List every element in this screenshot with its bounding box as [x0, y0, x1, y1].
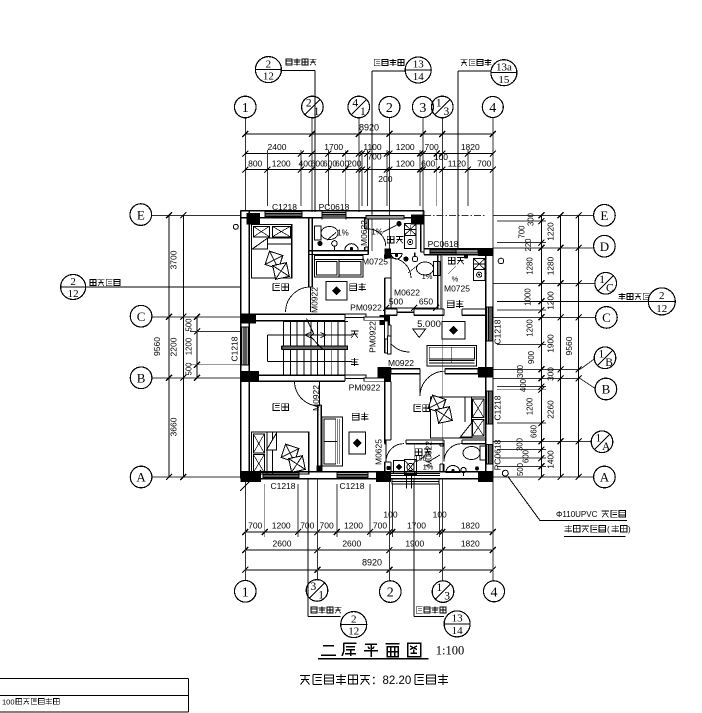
note box text	[2, 698, 59, 707]
svg-text:3700: 3700	[169, 250, 179, 269]
wall bath3 north	[462, 440, 486, 444]
bed bedroom2	[251, 432, 308, 474]
axis bubble 1 top	[235, 96, 257, 118]
svg-text:C1218: C1218	[270, 481, 295, 491]
svg-text:1700: 1700	[407, 520, 426, 530]
slope balcony1	[371, 225, 396, 236]
label bedroom1	[273, 283, 288, 291]
table living1 top	[326, 282, 347, 301]
svg-text:2: 2	[386, 101, 393, 116]
svg-text:12: 12	[68, 288, 79, 300]
bottom dimension lines	[242, 484, 495, 575]
svg-text:300: 300	[527, 212, 536, 226]
detail leader 2/12 top-left	[255, 57, 316, 212]
small circle pipe unit2	[498, 258, 504, 264]
toilet bath1	[315, 226, 339, 240]
axis bubble 3 top	[412, 97, 433, 118]
svg-text:1200: 1200	[272, 158, 291, 168]
svg-text:2: 2	[659, 290, 665, 302]
svg-text:4: 4	[491, 585, 498, 600]
svg-text:13: 13	[413, 59, 425, 71]
dot balcony3	[386, 466, 390, 470]
axis bubble 4/1 top	[348, 96, 370, 118]
svg-text:Φ110UPVC: Φ110UPVC	[556, 510, 598, 519]
bed bedroom1	[251, 225, 291, 280]
floor drain bath1	[317, 241, 322, 246]
svg-text:1200: 1200	[344, 520, 363, 530]
svg-text:1: 1	[242, 101, 249, 116]
axis bubble 3/1 bottom	[306, 580, 328, 602]
svg-text:2: 2	[351, 613, 357, 625]
wall hall north at C	[241, 314, 345, 320]
svg-text:14: 14	[413, 71, 425, 83]
window PC0618 top	[322, 211, 346, 220]
svg-text:1200: 1200	[546, 291, 556, 310]
svg-text:600: 600	[522, 449, 531, 463]
bed bedroom3	[428, 395, 486, 438]
svg-text:9560: 9560	[152, 337, 162, 356]
slope balcony2	[448, 266, 459, 284]
column center at C	[380, 315, 390, 325]
svg-text:1: 1	[599, 348, 605, 360]
slope bath2	[408, 265, 433, 281]
wall party middle	[385, 325, 391, 353]
svg-text:9560: 9560	[564, 336, 574, 355]
title underline	[318, 658, 429, 660]
svg-text:B: B	[137, 371, 146, 386]
door M0725 bath2	[391, 258, 411, 278]
axis bubble C left	[130, 305, 152, 327]
svg-text:500: 500	[389, 297, 403, 307]
top dimension lines	[242, 128, 495, 206]
column center at B	[378, 367, 392, 382]
axis bubble B left	[130, 367, 152, 389]
floor drain bath3	[475, 466, 479, 470]
stair arrowhead right	[321, 332, 327, 337]
svg-text:C: C	[137, 309, 146, 324]
slope bath1	[327, 229, 349, 241]
small circle pipe top-left	[233, 224, 238, 229]
svg-text:PM0922: PM0922	[349, 382, 381, 392]
table living1 bottom	[349, 432, 366, 454]
svg-text:PC0618: PC0618	[319, 202, 350, 212]
detail leader 2/12 right	[497, 288, 675, 315]
svg-text:1:100: 1:100	[436, 644, 464, 658]
svg-text:300: 300	[516, 437, 525, 451]
axis bubble C right	[596, 307, 618, 329]
svg-text:8920: 8920	[362, 558, 382, 568]
svg-text:300: 300	[546, 367, 556, 381]
basin bath1	[345, 244, 359, 251]
label dim 500 650	[383, 297, 439, 311]
svg-text:1120: 1120	[448, 158, 467, 168]
svg-text:1820: 1820	[461, 142, 480, 152]
svg-text:1: 1	[436, 98, 442, 110]
wall exterior bottom	[241, 472, 493, 479]
grid vertical axis lines bottom	[245, 479, 492, 581]
door M0922 unit2 entry	[385, 327, 410, 352]
dot balcony2	[464, 254, 468, 258]
door M0922 bedroom2	[295, 381, 320, 406]
svg-text:1000: 1000	[524, 288, 533, 306]
svg-text:1: 1	[242, 585, 249, 600]
balcony1 top rail	[366, 216, 404, 219]
title text (second floor plan)	[321, 643, 421, 657]
rain pipe label line1	[556, 510, 625, 519]
svg-text:M0622: M0622	[423, 441, 433, 467]
axis bubble E left	[130, 204, 152, 226]
svg-text:4: 4	[489, 101, 496, 116]
window PC0618 unit2 top	[430, 248, 456, 255]
svg-text:): )	[628, 525, 631, 534]
interior axis reference lines	[372, 214, 486, 479]
svg-text:1220: 1220	[546, 222, 556, 241]
detail leader 13/14 bottom	[414, 479, 470, 637]
door PM0922 sliding vertical	[385, 321, 391, 354]
svg-text:1280: 1280	[526, 257, 535, 275]
door M0622 unit2 hall	[397, 311, 414, 313]
column top-left corner	[247, 213, 261, 225]
left dimension lines	[166, 212, 241, 480]
level marker 5.000	[413, 319, 441, 337]
rain pipe label line2	[564, 525, 631, 537]
rain pipe leader line	[508, 476, 540, 520]
svg-text:1: 1	[437, 582, 443, 594]
svg-text:E: E	[600, 208, 608, 223]
svg-text:14: 14	[452, 625, 464, 637]
detail leader 13a/15 top	[458, 59, 517, 249]
axis bubble A left	[130, 466, 152, 488]
wall party lower	[385, 382, 391, 472]
svg-text:2260: 2260	[546, 400, 556, 419]
svg-text:15: 15	[498, 74, 510, 86]
svg-text:1%: 1%	[337, 229, 349, 238]
svg-text:M0625: M0625	[373, 439, 383, 465]
axis bubble B right	[595, 378, 617, 400]
toilet bath2	[417, 262, 441, 276]
svg-text:1200: 1200	[396, 142, 415, 152]
label balcony2	[448, 257, 464, 264]
door M0922 bedroom1	[286, 287, 311, 312]
svg-text:660: 660	[530, 424, 539, 438]
svg-text:3660: 3660	[169, 417, 179, 436]
svg-text:3: 3	[444, 106, 450, 118]
column right at 1/B	[478, 367, 493, 378]
stair break line	[307, 319, 323, 350]
rain pipe circle	[502, 470, 508, 476]
window PC0618 right wall bath3	[485, 445, 493, 465]
svg-text:PC0618: PC0618	[428, 239, 459, 249]
svg-text:1900: 1900	[405, 539, 424, 549]
wall party upper	[385, 255, 391, 309]
svg-text:M0622: M0622	[359, 220, 369, 246]
svg-text:1%: 1%	[422, 272, 433, 281]
axis bubble 4 bottom	[484, 581, 505, 602]
wall balcony3 north	[385, 440, 444, 444]
door PM0922 sliding south	[345, 375, 385, 381]
window C1218 right wall lower	[485, 391, 493, 424]
svg-text:220: 220	[524, 238, 533, 252]
column bottom party wall	[376, 472, 391, 482]
wall exterior top (unit1)	[241, 211, 424, 218]
window C1218 top	[265, 210, 302, 218]
wall bedroom3 south at 1/B	[391, 369, 478, 374]
label balcony1	[387, 236, 403, 243]
svg-text:12: 12	[263, 71, 274, 83]
svg-text:3: 3	[419, 101, 426, 116]
door M0625 balcony3	[386, 444, 404, 462]
svg-text:M0922: M0922	[388, 358, 414, 368]
wall balcony3/bath3 divider	[440, 444, 444, 472]
right dimension numbers	[516, 212, 575, 476]
svg-text:700: 700	[320, 520, 334, 530]
stair label down	[351, 331, 359, 338]
svg-text:100: 100	[434, 152, 448, 162]
svg-text:2600: 2600	[273, 539, 292, 549]
svg-text:8920: 8920	[359, 123, 379, 133]
axis bubble 1/A right	[591, 431, 613, 453]
svg-text:700: 700	[477, 158, 491, 168]
sofa living1 bottom	[322, 417, 343, 466]
grid vertical axis lines top	[245, 118, 492, 249]
svg-text:650: 650	[419, 297, 433, 307]
balcony3 drain pipes	[406, 474, 408, 489]
wall exterior top (unit2)	[424, 249, 493, 255]
svg-text:M0725: M0725	[362, 257, 388, 267]
svg-text:13: 13	[452, 613, 464, 625]
axis bubble 2/1 top	[302, 96, 324, 118]
detail leader 2/12 bottom	[308, 479, 367, 638]
svg-text:1820: 1820	[461, 539, 480, 549]
svg-text:B: B	[602, 382, 611, 397]
faucet bath3	[461, 467, 466, 472]
wall step vertical at axis 3	[421, 218, 424, 252]
svg-text:1280: 1280	[546, 256, 556, 275]
axis bubble 2 bottom	[380, 581, 402, 603]
svg-text:2: 2	[306, 98, 312, 110]
svg-text:2: 2	[266, 58, 272, 70]
svg-text:1700: 1700	[324, 142, 343, 152]
column left at B	[241, 371, 259, 381]
svg-text:2600: 2600	[342, 539, 361, 549]
balcony2 top rail	[456, 250, 478, 253]
label living1 bottom	[352, 413, 368, 421]
svg-text:2: 2	[387, 586, 394, 601]
slope bath3	[414, 453, 440, 463]
axis bubble 2 top	[379, 97, 400, 118]
svg-text:2400: 2400	[268, 142, 287, 152]
svg-text:100: 100	[433, 510, 447, 520]
axis bubble A right	[594, 466, 616, 488]
left dimension numbers	[152, 250, 194, 436]
svg-text:900: 900	[527, 350, 536, 364]
svg-text:：82.20: ：82.20	[371, 675, 411, 687]
note box bottom-left	[0, 679, 189, 712]
svg-text:%: %	[452, 275, 459, 284]
rain pipe stub bottom-left	[240, 470, 261, 491]
stair rail	[282, 346, 348, 349]
axis bubble D right	[594, 235, 616, 257]
svg-text:500: 500	[185, 362, 194, 376]
slope balcony3	[416, 455, 434, 472]
axis bubble E right	[594, 205, 616, 227]
stair label up	[351, 358, 359, 366]
svg-text:3: 3	[444, 591, 450, 603]
label balcony3	[415, 449, 431, 456]
label bedroom2	[273, 403, 288, 411]
svg-text:700: 700	[518, 225, 527, 239]
svg-text:A: A	[136, 470, 146, 485]
wall hall south at B	[241, 375, 345, 381]
window C1218 right wall upper	[485, 307, 493, 341]
label living2	[447, 300, 463, 308]
stair treads	[284, 321, 349, 375]
svg-text:1: 1	[596, 432, 602, 444]
svg-text:4: 4	[352, 98, 358, 110]
svg-text:PC0618: PC0618	[493, 439, 503, 470]
table living2	[442, 322, 465, 340]
svg-text:300: 300	[516, 364, 525, 378]
subtitle floor area text	[300, 674, 448, 687]
door M0622 bath3	[444, 444, 462, 462]
label living1 top	[350, 283, 366, 291]
svg-text:M0922: M0922	[310, 287, 320, 313]
svg-text:1200: 1200	[185, 337, 194, 355]
svg-text:(: (	[607, 525, 610, 534]
sink balcony2	[474, 259, 486, 281]
window C1218 left wall	[240, 327, 250, 365]
svg-text:M0725: M0725	[444, 284, 470, 294]
svg-text:1: 1	[318, 590, 324, 602]
column bottom-right corner	[478, 472, 493, 482]
dot balcony1	[396, 221, 401, 226]
wall exterior left	[241, 211, 250, 479]
svg-text:B: B	[605, 357, 613, 369]
sink balcony3	[394, 460, 417, 475]
svg-text:600: 600	[421, 158, 435, 168]
svg-text:700: 700	[373, 520, 387, 530]
svg-text:M0922: M0922	[311, 385, 321, 411]
svg-text:C: C	[602, 310, 611, 325]
svg-text:D: D	[600, 239, 609, 254]
door PM0922 sliding north	[345, 314, 385, 320]
svg-text:700: 700	[367, 152, 381, 162]
svg-text:3: 3	[311, 581, 317, 593]
svg-text:C1218: C1218	[230, 336, 240, 361]
bottom dimension numbers	[248, 510, 480, 568]
svg-text:800: 800	[248, 158, 262, 168]
svg-text:5.000: 5.000	[417, 319, 441, 330]
door M0622 balcony1	[368, 229, 385, 247]
detail leader 13/14 top	[372, 57, 431, 214]
svg-text:E: E	[137, 207, 145, 222]
svg-text:C1218: C1218	[493, 319, 503, 344]
svg-text:1: 1	[360, 106, 366, 118]
svg-text:A: A	[600, 470, 610, 485]
svg-text:100: 100	[2, 698, 15, 707]
svg-text:C1218: C1218	[493, 395, 503, 420]
wall bedroom1 east	[309, 218, 313, 287]
svg-text:C1218: C1218	[339, 481, 364, 491]
svg-text:13a: 13a	[496, 61, 512, 73]
svg-text:2: 2	[70, 276, 76, 288]
top dimension numbers	[248, 123, 491, 185]
axis bubble 1/C right	[595, 273, 617, 295]
axis bubble 4 top	[482, 97, 503, 118]
faucet bath1	[332, 241, 338, 247]
svg-text:C1218: C1218	[272, 202, 297, 212]
axis bubble 1/3 top	[432, 96, 454, 118]
window C1218 bottom west	[263, 471, 299, 479]
svg-text:A: A	[602, 441, 611, 453]
basin bath3	[446, 466, 460, 473]
svg-text:1200: 1200	[396, 158, 415, 168]
column left at C	[241, 314, 256, 324]
svg-text:700: 700	[300, 520, 314, 530]
wall bath1 south	[309, 251, 369, 255]
svg-text:1%: 1%	[371, 228, 383, 237]
sink balcony1	[405, 224, 417, 249]
wall bedroom2 east	[318, 405, 322, 472]
stair arrowhead left	[305, 332, 311, 337]
svg-text:200: 200	[347, 158, 361, 168]
svg-text:1200: 1200	[272, 520, 291, 530]
svg-text:1400: 1400	[546, 450, 556, 469]
column bedroom2 wall bottom	[317, 466, 323, 473]
window C1218 bottom mid	[337, 471, 368, 479]
wall bath2 south / unit2 hall	[385, 309, 486, 315]
svg-text:1900: 1900	[546, 334, 556, 353]
svg-text:1100: 1100	[363, 142, 382, 152]
svg-text:1200: 1200	[526, 319, 535, 337]
wall balcony1 west	[365, 218, 369, 251]
svg-text:12: 12	[348, 626, 359, 638]
column bottom-left corner	[241, 472, 261, 482]
column balcony1 east	[411, 215, 424, 225]
svg-text:C: C	[606, 282, 614, 294]
svg-text:1820: 1820	[461, 520, 480, 530]
svg-text:2200: 2200	[169, 337, 179, 356]
column party wall top	[385, 249, 391, 258]
floor drain bath2	[403, 256, 408, 261]
sofa living2 right	[427, 345, 477, 366]
wall exterior right	[486, 249, 493, 479]
balcony3 bottom band	[391, 473, 440, 484]
svg-text:400: 400	[519, 378, 528, 392]
axis bubble 1/3 bottom	[432, 581, 454, 603]
svg-text:PM0922: PM0922	[367, 321, 377, 353]
svg-text:PM0922: PM0922	[350, 303, 382, 313]
detail leader 2/12 left	[61, 275, 241, 300]
svg-text:500: 500	[516, 462, 525, 476]
svg-text:200: 200	[378, 174, 392, 184]
axis bubble 1/B right	[594, 347, 616, 369]
faucet bath2	[412, 256, 417, 261]
axis bubble 1 bottom	[235, 581, 257, 603]
svg-text:100: 100	[383, 510, 397, 520]
svg-text:12: 12	[656, 303, 667, 315]
grid horizontal axis leaders right	[493, 215, 596, 477]
door M0922 bedroom3	[420, 371, 445, 396]
stair arrow path	[268, 335, 352, 362]
toilet bath3	[463, 446, 487, 460]
label bedroom3	[414, 404, 429, 412]
svg-text:700: 700	[425, 142, 439, 152]
svg-text:1: 1	[599, 274, 605, 286]
right dimension lines	[497, 212, 582, 480]
basin bath2	[391, 254, 402, 260]
svg-text:500: 500	[185, 318, 194, 332]
